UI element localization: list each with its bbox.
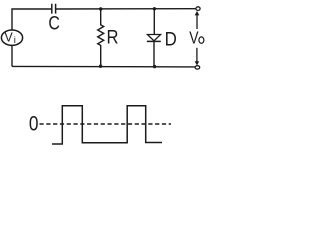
resistor R — [98, 9, 119, 66]
terminal top — [196, 7, 200, 11]
junction — [99, 7, 102, 10]
wire — [12, 9, 51, 30]
wire — [56, 8, 196, 10]
svg-text:D: D — [165, 30, 177, 51]
junction — [153, 65, 156, 68]
wire — [11, 45, 13, 66]
capacitor C — [48, 4, 60, 35]
wire — [12, 65, 195, 68]
svg-text:V: V — [5, 30, 14, 44]
node Vo — [189, 11, 204, 66]
svg-text:0: 0 — [29, 112, 39, 136]
axis zero dashed line — [40, 123, 172, 125]
junction — [153, 7, 156, 10]
svg-text:C: C — [48, 14, 60, 35]
junction — [99, 65, 102, 68]
svg-text:R: R — [107, 27, 119, 48]
diode D — [147, 9, 177, 67]
svg-text:i: i — [14, 35, 16, 46]
square wave Vi — [52, 106, 162, 144]
source Vi — [1, 30, 22, 46]
svg-text:V: V — [189, 28, 198, 48]
terminal bottom — [195, 66, 200, 69]
